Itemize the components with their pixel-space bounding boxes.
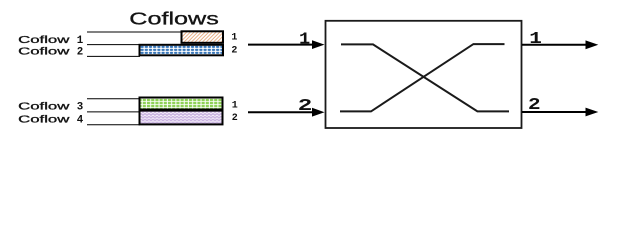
svg-text:Coflow: Coflow xyxy=(18,35,70,46)
label Coflow 2 xyxy=(18,47,83,59)
switch box xyxy=(326,21,522,128)
label Coflow 3 xyxy=(18,101,83,113)
bar coflow1 timeline xyxy=(87,32,181,45)
svg-text:2: 2 xyxy=(528,95,541,114)
switch cross path A (in1 to out2) xyxy=(341,44,509,111)
flow block coflow1 orange hatch xyxy=(182,31,224,43)
input arrow 1 xyxy=(248,40,325,49)
svg-text:Coflows: Coflows xyxy=(129,9,219,29)
svg-text:1: 1 xyxy=(231,33,237,44)
svg-text:2: 2 xyxy=(231,46,237,57)
label Coflow 1 xyxy=(18,35,84,47)
svg-text:Coflow: Coflow xyxy=(18,101,70,112)
input arrow 2 xyxy=(248,108,325,117)
svg-text:1: 1 xyxy=(232,101,238,112)
output arrow 1 xyxy=(522,40,598,49)
flow block coflow3 green hatch xyxy=(140,98,223,110)
svg-text:1: 1 xyxy=(299,29,310,48)
svg-text:1: 1 xyxy=(529,29,542,48)
svg-text:2: 2 xyxy=(232,113,238,124)
svg-text:4: 4 xyxy=(77,114,84,126)
output arrow 2 xyxy=(522,108,598,117)
svg-text:3: 3 xyxy=(77,101,83,113)
label Coflow 4 xyxy=(18,114,84,126)
svg-text:1: 1 xyxy=(77,35,84,47)
flow block coflow2 blue hatch xyxy=(140,45,224,56)
switch cross path B (in2 to out1) xyxy=(340,44,505,111)
svg-text:Coflow: Coflow xyxy=(18,114,70,125)
bar coflow4 timeline xyxy=(87,124,140,126)
bar coflow2 timeline xyxy=(87,55,140,57)
svg-text:2: 2 xyxy=(77,47,83,59)
svg-text:Coflow: Coflow xyxy=(18,47,70,58)
bar coflow3 timeline xyxy=(87,99,140,112)
flow block coflow4 purple hatch xyxy=(140,111,223,125)
svg-text:2: 2 xyxy=(298,96,313,115)
